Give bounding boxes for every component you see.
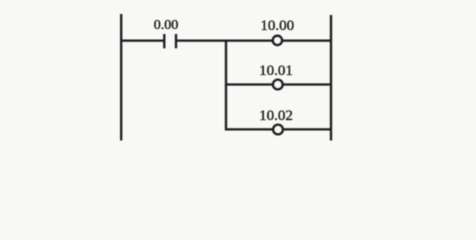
- svg-text:0.00: 0.00: [154, 18, 179, 33]
- wire rung1 left rail to contact: [121, 39, 164, 41]
- wire coil 10.01 to right rail: [283, 83, 331, 85]
- wire rung3 branch to coil 10.02: [225, 128, 272, 130]
- coil 10.00 circle: [273, 36, 282, 45]
- wire rung2 branch to coil 10.01: [225, 83, 272, 85]
- contact 0.00 right bar: [175, 34, 177, 48]
- branch vertical wire: [225, 40, 227, 131]
- coil 10.02 circle: [273, 125, 283, 135]
- right power rail: [330, 15, 332, 141]
- contact 0.00 left bar: [163, 34, 165, 48]
- wire contact to coil 10.00: [177, 39, 272, 41]
- svg-text:10.00: 10.00: [260, 18, 294, 34]
- left power rail: [120, 14, 122, 141]
- svg-text:10.01: 10.01: [259, 63, 293, 79]
- wire coil 10.02 to right rail: [284, 128, 331, 130]
- coil 10.01 circle: [273, 80, 283, 90]
- svg-text:10.02: 10.02: [259, 108, 293, 124]
- wire coil 10.00 to right rail: [283, 39, 331, 41]
